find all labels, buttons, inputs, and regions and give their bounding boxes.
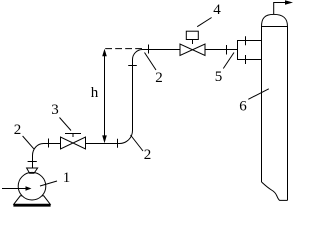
svg-text:5: 5 bbox=[215, 69, 223, 85]
svg-text:2: 2 bbox=[155, 70, 163, 86]
svg-text:4: 4 bbox=[213, 2, 221, 18]
svg-text:h: h bbox=[91, 85, 99, 101]
svg-text:2: 2 bbox=[144, 147, 152, 163]
svg-text:2: 2 bbox=[14, 122, 22, 138]
svg-text:6: 6 bbox=[239, 98, 247, 114]
svg-text:1: 1 bbox=[63, 170, 71, 186]
svg-text:3: 3 bbox=[51, 102, 59, 118]
